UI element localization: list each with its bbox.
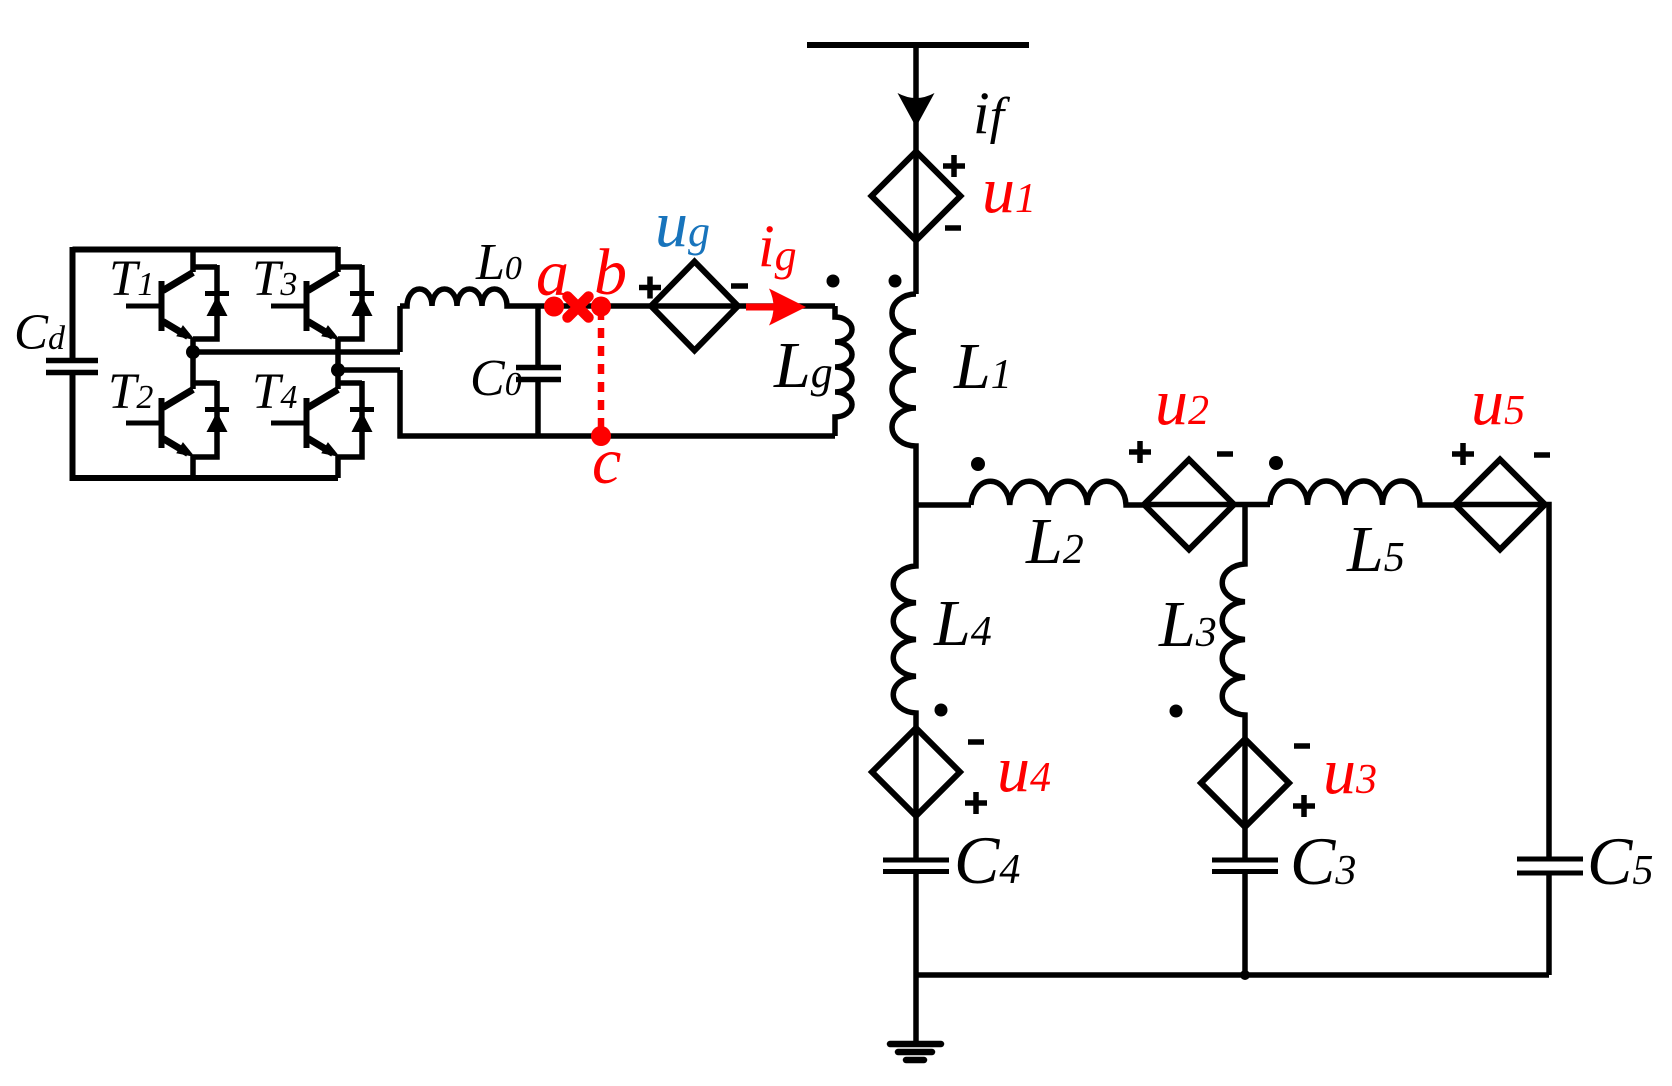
node a: [544, 297, 564, 317]
polarity dot Lg: [827, 275, 840, 288]
wire: junction to L2: [916, 502, 971, 508]
u3 plus: [1293, 795, 1315, 817]
svg-text:L3: L3: [1158, 588, 1217, 661]
svg-text:L1: L1: [953, 330, 1012, 403]
wire: node a-b segment: [538, 303, 835, 309]
svg-text:T3: T3: [252, 251, 297, 307]
svg-text:b: b: [594, 236, 627, 309]
transistor T3: [271, 247, 374, 370]
wire: left midpoint to filter: [193, 349, 400, 355]
capacitor Cd: [46, 361, 98, 373]
u5 plus: [1452, 443, 1474, 465]
label L0: [475, 234, 522, 291]
H-bridge top rail: [73, 247, 339, 253]
u2 plus: [1129, 441, 1151, 463]
svg-text:Cd: Cd: [14, 305, 66, 361]
svg-text:if: if: [973, 80, 1011, 146]
wire: bus down to u1: [913, 45, 919, 294]
u1 minus: [945, 225, 961, 231]
label u4: [997, 733, 1051, 806]
u5 minus: [1534, 452, 1550, 458]
current arrow ig: [746, 289, 806, 326]
node on bottom rail at C3: [1240, 970, 1250, 980]
controlled source u1 (diamond): [872, 152, 961, 241]
label C4: [954, 822, 1020, 898]
label u1: [982, 154, 1036, 227]
inductor Lg: [835, 306, 852, 436]
polarity dot L2: [971, 457, 985, 471]
inductor L2: [971, 481, 1144, 505]
svg-text:c: c: [592, 425, 621, 498]
label C0: [470, 350, 522, 407]
node b: [591, 297, 611, 317]
polarity dot L4: [935, 704, 948, 717]
label if: [973, 80, 1011, 146]
bottom rail: [916, 972, 1549, 978]
svg-text:L5: L5: [1346, 513, 1405, 586]
ug minus: [731, 283, 748, 289]
label u5: [1471, 366, 1525, 439]
controlled source u3 (diamond): [1201, 739, 1289, 827]
label L3: [1158, 588, 1217, 661]
u1 plus: [943, 155, 965, 177]
breaker X: [568, 297, 589, 318]
svg-text:ig: ig: [758, 213, 797, 280]
transistor T1: [126, 247, 229, 352]
u4 minus: [968, 739, 984, 745]
capacitor C5: [1517, 859, 1583, 873]
svg-text:u5: u5: [1471, 366, 1525, 439]
svg-text:T4: T4: [252, 364, 297, 420]
u3 minus: [1294, 743, 1310, 749]
label b: [594, 236, 627, 309]
label u3: [1323, 735, 1377, 808]
label T1: [109, 251, 154, 307]
svg-text:T1: T1: [109, 251, 154, 307]
label a: [536, 237, 569, 310]
ug plus: [639, 277, 661, 299]
label C3: [1290, 823, 1356, 899]
svg-text:u4: u4: [997, 733, 1051, 806]
transistor T2: [126, 352, 229, 478]
label Lg: [773, 329, 833, 402]
u4 wire through: [913, 728, 919, 858]
u4 plus: [965, 792, 987, 814]
polarity dot L5: [1269, 456, 1283, 470]
dashed line b-c: [598, 310, 605, 432]
label C5: [1587, 823, 1653, 899]
node: right bridge midpoint: [331, 363, 345, 377]
capacitor C4: [883, 860, 949, 872]
label T4: [252, 364, 297, 420]
inductor L5: [1270, 481, 1455, 505]
node: left bridge midpoint: [186, 345, 200, 359]
svg-text:L2: L2: [1025, 505, 1084, 578]
wire: right midpoint to filter bottom: [338, 367, 400, 373]
svg-text:C5: C5: [1587, 823, 1653, 899]
controlled source u2 (diamond): [1144, 460, 1234, 550]
label T3: [252, 251, 297, 307]
label u2: [1155, 366, 1209, 439]
svg-text:C4: C4: [954, 822, 1020, 898]
wire: u2 to L5 junction: [1144, 502, 1270, 508]
controlled source u5 (diamond): [1455, 460, 1545, 550]
inductor L4: [893, 505, 916, 728]
wire: u5 to right column: [1455, 505, 1549, 858]
svg-text:C3: C3: [1290, 823, 1356, 899]
u2 minus: [1217, 451, 1233, 457]
svg-text:u3: u3: [1323, 735, 1377, 808]
inductor L1: [892, 294, 916, 505]
inductor L0: [400, 289, 538, 306]
polarity dot L1: [889, 275, 902, 288]
wire: filter left risers: [397, 306, 403, 439]
label c: [592, 425, 621, 498]
label T2: [108, 364, 153, 420]
label Cd: [14, 305, 66, 361]
capacitor C3: [1212, 860, 1278, 872]
svg-text:C0: C0: [470, 350, 522, 407]
top grid bus: [807, 42, 1029, 48]
inductor L3: [1222, 505, 1245, 739]
label ig: [758, 213, 797, 280]
ground: [913, 975, 919, 1044]
svg-text:L4: L4: [933, 587, 992, 660]
controlled source u4 (diamond): [872, 728, 960, 816]
label L2: [1025, 505, 1084, 578]
label L4: [933, 587, 992, 660]
label ug: [655, 188, 710, 261]
svg-text:T2: T2: [108, 364, 153, 420]
polarity dot L3: [1170, 705, 1183, 718]
label L1: [953, 330, 1012, 403]
label L5: [1346, 513, 1405, 586]
capacitor C0: [516, 306, 561, 439]
node c: [591, 426, 611, 446]
controlled source ug (diamond): [651, 262, 738, 351]
svg-text:u1: u1: [982, 154, 1036, 227]
H-bridge bottom rail: [73, 475, 339, 481]
svg-text:Lg: Lg: [773, 329, 833, 402]
H-bridge left rail: [70, 247, 76, 481]
current arrow if: [898, 93, 935, 127]
transistor T4: [271, 370, 374, 478]
svg-text:ug: ug: [655, 188, 710, 261]
u3 wire through: [1242, 739, 1248, 858]
wire: filter bottom rail: [398, 433, 836, 439]
svg-text:L0: L0: [475, 234, 522, 291]
svg-text:u2: u2: [1155, 366, 1209, 439]
